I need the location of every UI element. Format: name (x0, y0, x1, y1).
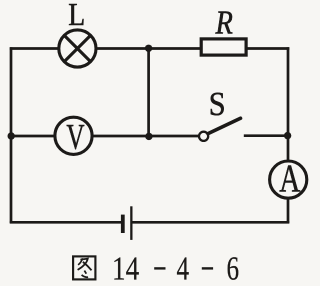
switch S (199, 118, 241, 141)
svg-text:6: 6 (227, 250, 240, 286)
svg-text:S: S (209, 84, 226, 122)
ammeter A (270, 161, 307, 198)
node junction middle voltmeter row (145, 133, 152, 140)
resistor R (201, 39, 246, 55)
voltmeter V (55, 117, 92, 154)
battery cell negative plate (121, 215, 125, 233)
wire left vertical (10, 47, 13, 223)
node junction top middle (145, 45, 152, 52)
wire middle vertical (147, 49, 150, 137)
node junction right switch row (284, 132, 291, 139)
wire resistor to top-right corner (247, 47, 289, 50)
wire lamp to resistor (97, 47, 200, 50)
wire top-left segment (10, 47, 58, 50)
svg-text:14: 14 (112, 249, 139, 286)
wire right vertical upper (287, 47, 290, 160)
battery cell positive plate (130, 206, 132, 240)
svg-text:4: 4 (177, 250, 190, 286)
svg-text:A: A (279, 157, 300, 200)
wire bottom left of battery (10, 221, 121, 224)
wire switch to right node (244, 134, 288, 137)
caption dash 1 (154, 267, 165, 269)
wire voltmeter to switch (93, 135, 199, 138)
svg-text:R: R (215, 3, 233, 41)
wire left to voltmeter (10, 135, 54, 138)
node junction left voltmeter row (8, 132, 15, 139)
wire right vertical lower (287, 199, 290, 223)
lamp L (59, 30, 96, 67)
caption dash 2 (202, 267, 213, 269)
caption character tu (box radical) (73, 256, 95, 279)
wire bottom right of battery (132, 221, 290, 224)
svg-text:L: L (68, 0, 85, 32)
svg-text:V: V (66, 117, 84, 156)
